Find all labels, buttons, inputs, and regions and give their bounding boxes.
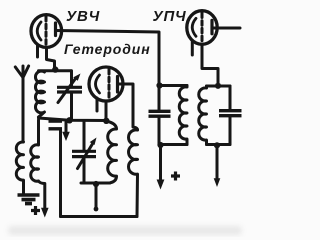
tube U2 cathode bbox=[96, 75, 100, 93]
capacitor C3 bottom lead bbox=[158, 117, 161, 145]
capacitor C1 plates bbox=[57, 87, 82, 92]
tube U2 anode bbox=[116, 77, 119, 93]
node tank1 top junction bbox=[52, 66, 58, 72]
capacitor C2 bottom lead bbox=[83, 159, 86, 184]
wire tank1 top rail bbox=[39, 69, 72, 72]
tube U2 cathode lead stub bbox=[96, 98, 99, 111]
svg-text:УПЧ: УПЧ bbox=[153, 8, 187, 25]
tube U3 (УПЧ) envelope bbox=[187, 11, 217, 45]
inductor L6 (IF primary) bbox=[179, 86, 187, 145]
inductor L1 (RF tank coil) bbox=[35, 71, 44, 117]
capacitor C4 top lead bbox=[229, 86, 232, 111]
wire U1 grid to tank1 bbox=[47, 48, 55, 69]
capacitor C5 bottom plate bbox=[49, 127, 63, 130]
wire C5 to bottom bus bbox=[59, 130, 62, 217]
capacitor C4 plates bbox=[219, 111, 242, 116]
tube U2 (Гетеродин) envelope bbox=[89, 67, 123, 101]
tube U3 cathode lead stub bbox=[191, 42, 194, 56]
scan shadow band bbox=[8, 226, 242, 235]
tube U3 grid bbox=[201, 13, 204, 42]
tube U2 grid bbox=[108, 70, 111, 100]
wire U1 anode to IF transformer bbox=[56, 31, 160, 112]
node heterodyne rail junction bbox=[103, 118, 109, 124]
node IF left top junction bbox=[156, 82, 162, 88]
supply arrow (plus tap, lower left) bbox=[41, 208, 49, 218]
wire heterodyne tank bottom rail bbox=[81, 182, 110, 185]
inductor L7 (IF secondary) bbox=[199, 86, 207, 145]
node heterodyne bottom junction bbox=[93, 181, 99, 187]
tube U3 anode lead out bbox=[212, 27, 240, 30]
node IF right bottom junction bbox=[214, 142, 220, 148]
inductor L2 (antenna coil) bbox=[16, 142, 23, 194]
node IF left bottom junction bbox=[157, 142, 163, 148]
label plus (IF) bbox=[171, 172, 180, 181]
wire cathode tap stub bbox=[95, 184, 98, 209]
wire IF right tap down bbox=[216, 146, 219, 180]
antenna W1 bbox=[15, 66, 28, 142]
inductor L3 (coupling coil to mixer grid) bbox=[31, 120, 45, 209]
capacitor C1 variable top lead bbox=[70, 71, 73, 86]
tube U1 grid bbox=[45, 17, 48, 47]
inductor L4 (heterodyne tank coil) bbox=[107, 121, 117, 183]
svg-text:Гетеродин: Гетеродин bbox=[64, 41, 151, 57]
capacitor C3 plates bbox=[149, 111, 171, 116]
tube U1 anode bbox=[54, 23, 57, 36]
tube U1 cathode bbox=[37, 22, 41, 40]
node IF right top junction bbox=[215, 83, 221, 89]
tube U3 cathode bbox=[192, 18, 196, 36]
wire U2 grid lead down bbox=[105, 101, 108, 120]
wire IF right top rail bbox=[207, 85, 231, 88]
tube U1 cathode lead stub bbox=[36, 45, 39, 57]
wire IF left top rail bbox=[159, 84, 187, 87]
wire IF right bottom rail bbox=[207, 143, 231, 146]
label plus (lower left) bbox=[31, 206, 40, 215]
inductor L5 (feedback coil) bbox=[129, 130, 138, 217]
wire U3 grid to IF secondary bbox=[202, 44, 218, 85]
terminal blob bbox=[214, 178, 221, 187]
capacitor C2 arrow bbox=[78, 143, 94, 169]
supply arrow (minus tap) bbox=[65, 122, 68, 133]
ground bbox=[18, 195, 40, 204]
wire U2 anode to feedback coil bbox=[118, 84, 138, 130]
wire IF left bottom rail bbox=[159, 143, 187, 146]
capacitor C5 top plate (merged with rail) bbox=[49, 120, 63, 123]
tube U3 anode bbox=[210, 20, 213, 34]
capacitor C2 plates bbox=[72, 151, 96, 156]
wire bottom bus bbox=[61, 215, 138, 218]
capacitor C2 variable top lead bbox=[83, 121, 86, 150]
supply arrow (plus tap, IF) bbox=[159, 146, 162, 180]
wire tank1 bottom rail bbox=[39, 118, 107, 121]
svg-text:УВЧ: УВЧ bbox=[66, 8, 100, 25]
wire C1 bottom to bottom bus bbox=[70, 94, 73, 120]
node tank1 bottom junction bbox=[66, 117, 72, 123]
tube U1 (УВЧ) envelope bbox=[31, 15, 62, 48]
capacitor C1 arrow bbox=[58, 79, 76, 103]
capacitor C4 bottom lead bbox=[229, 116, 232, 145]
